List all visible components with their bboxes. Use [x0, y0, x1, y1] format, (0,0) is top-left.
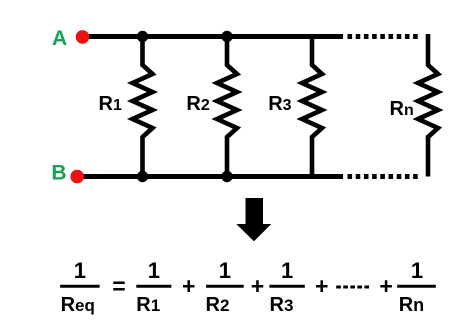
svg-text:R3: R3: [268, 93, 291, 115]
svg-text:1: 1: [411, 258, 423, 283]
formula fraction 1/R1 bar: [136, 285, 171, 288]
resistor R2: [217, 37, 237, 177]
svg-text:R1: R1: [99, 93, 122, 115]
svg-text:B: B: [51, 161, 66, 184]
wire bottom horizontal: [77, 174, 343, 179]
svg-text:R1: R1: [136, 294, 160, 316]
svg-text:1: 1: [219, 258, 231, 283]
implication arrow down: [236, 198, 271, 241]
svg-text:Req: Req: [61, 294, 95, 316]
wire top horizontal: [82, 34, 343, 39]
terminal B red dot: [70, 170, 84, 184]
resistor Rn: [418, 34, 438, 177]
svg-text:1: 1: [281, 258, 293, 283]
svg-text:Rn: Rn: [390, 98, 414, 120]
formula fraction 1/Rn bar: [397, 285, 436, 288]
svg-text:1: 1: [74, 258, 86, 283]
svg-text:R2: R2: [186, 93, 209, 115]
formula fraction 1/Req bar: [60, 285, 100, 288]
junction dot top R1: [137, 31, 148, 42]
wire bottom dashed: [348, 174, 421, 179]
svg-text:=: =: [112, 273, 125, 299]
svg-text:Rn: Rn: [399, 294, 424, 316]
terminal A red dot: [76, 30, 90, 44]
svg-text:A: A: [52, 27, 67, 50]
resistor R1: [133, 37, 153, 177]
svg-text:R2: R2: [206, 294, 230, 316]
wire top dashed: [348, 34, 421, 39]
formula ellipsis dashes: [336, 286, 369, 289]
formula fraction 1/R2 bar: [206, 285, 244, 288]
svg-text:+: +: [315, 273, 328, 299]
junction dot bottom R1: [137, 171, 148, 182]
svg-text:+: +: [251, 273, 264, 299]
svg-text:R3: R3: [270, 294, 294, 316]
junction dot top R2: [221, 31, 232, 42]
svg-text:+: +: [182, 273, 195, 299]
svg-text:+: +: [379, 273, 392, 299]
formula fraction 1/R3 bar: [269, 285, 304, 288]
svg-text:1: 1: [148, 258, 160, 283]
resistor R3: [302, 37, 322, 177]
junction dot bottom R2: [221, 171, 232, 182]
